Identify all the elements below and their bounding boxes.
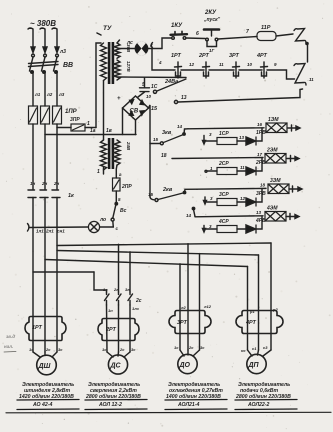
svg-text:3РТ: 3РТ: [177, 320, 188, 326]
svg-text:4ЭМ: 4ЭМ: [266, 206, 278, 212]
resistor 4SR with diode 4RV branch: [203, 217, 267, 233]
contact 3RT (thermal): [229, 53, 240, 78]
svg-text:2н: 2н: [41, 181, 48, 186]
svg-text:12: 12: [189, 62, 195, 67]
svg-text:14: 14: [177, 124, 183, 129]
svg-text:~ 380В: ~ 380В: [30, 19, 56, 28]
svg-text:ТУ: ТУ: [103, 25, 112, 32]
svg-text:2800 об/мин 220/380В: 2800 об/мин 220/380В: [235, 393, 291, 400]
svg-text:2л1: 2л1: [45, 229, 54, 234]
svg-text:1н: 1н: [30, 181, 36, 186]
svg-text:1Г: 1Г: [209, 48, 215, 53]
svg-text:1: 1: [87, 121, 90, 127]
svg-text:2800 об/мин 220/380В: 2800 об/мин 220/380В: [85, 393, 141, 400]
svg-text:15: 15: [153, 137, 159, 142]
fuse 3PR (control tap fuse): [57, 127, 71, 129]
resistor 1SR with diode 1RV branch: [203, 128, 267, 145]
connector Z2: [294, 64, 314, 86]
svg-text:л12: л12: [203, 304, 212, 309]
contact 1P (self-holding): [207, 41, 217, 47]
value label motor 1 description: [17, 382, 79, 410]
thermal relay 2RT heaters: [98, 319, 139, 341]
wire bus A: [57, 243, 271, 246]
connector Z1: [294, 29, 308, 45]
svg-text:13: 13: [239, 135, 245, 140]
secondary winding 24V: [114, 140, 120, 165]
svg-text:2РТ: 2РТ: [198, 53, 210, 59]
svg-text:АОЛ22-2: АОЛ22-2: [247, 402, 270, 408]
wire node 10: [239, 69, 262, 71]
wire phases below fuses: [33, 124, 57, 189]
wire branch 1: [188, 128, 264, 129]
svg-text:4РТ: 4РТ: [245, 320, 257, 326]
electromagnet 1EM: [266, 123, 287, 133]
svg-text:10: 10: [247, 62, 253, 67]
svg-text:л1: л1: [34, 92, 41, 97]
wire node 7: [218, 37, 257, 40]
svg-text:3кв: 3кв: [162, 130, 172, 136]
value label motor 2 description: [85, 382, 147, 410]
lamp LO (local light): [88, 217, 113, 233]
svg-text:+: +: [117, 96, 121, 102]
secondary winding 127V: [114, 60, 120, 80]
svg-text:ВВ: ВВ: [63, 62, 73, 69]
svg-text:127В: 127В: [126, 61, 131, 73]
svg-text:16: 16: [257, 122, 263, 127]
node terminal bracket left: [28, 224, 30, 232]
svg-text:3с: 3с: [200, 345, 205, 350]
rectifier bridge SV: [117, 96, 158, 120]
pushbutton 1KU (stop): [171, 23, 188, 39]
wire arrow output 3: [289, 186, 302, 192]
svg-text:4РТ: 4РТ: [256, 53, 268, 59]
motor DP (feed): [247, 350, 271, 374]
wire Z1 to Z2: [307, 45, 309, 62]
svg-text:1в: 1в: [103, 287, 108, 292]
switch 2KV: [148, 187, 197, 202]
svg-text:3с: 3с: [58, 347, 63, 352]
svg-text:сн1: сн1: [57, 229, 65, 234]
svg-text:6: 6: [196, 31, 199, 37]
electromagnet 4EM: [265, 212, 286, 222]
transformer TU: [97, 25, 131, 175]
svg-text:3в: 3в: [125, 287, 130, 292]
svg-text:3ПР: 3ПР: [70, 117, 80, 123]
contactor 1K contacts: [28, 190, 75, 199]
svg-text:2ПР: 2ПР: [121, 184, 132, 190]
primary winding straight section: [103, 81, 105, 141]
wire branch 3: [197, 187, 266, 190]
svg-text:СВ: СВ: [130, 109, 139, 115]
thermal relay 3RT heaters: [169, 311, 211, 334]
resistor 2SR with diode 2RV branch: [205, 158, 266, 175]
electromagnet 3EM: [268, 184, 289, 194]
svg-text:ДО: ДО: [179, 362, 191, 369]
svg-text:1РТ: 1РТ: [32, 325, 43, 331]
relay coil 11P: [257, 32, 276, 41]
svg-text:зв.д: зв.д: [6, 334, 15, 339]
svg-text:ДС: ДС: [110, 363, 122, 370]
svg-text:ло: ло: [99, 217, 106, 223]
svg-text:18: 18: [161, 153, 167, 159]
svg-text:л3: л3: [58, 92, 65, 97]
svg-text:Вс: Вс: [120, 208, 127, 214]
svg-text:1н: 1н: [108, 308, 113, 313]
wire bridge bottom corner down: [135, 120, 137, 135]
svg-text:1с: 1с: [29, 347, 34, 352]
thermal relay 1RT heaters: [25, 317, 66, 341]
svg-text:2кв: 2кв: [162, 187, 173, 193]
node second throw of 2KV: [192, 207, 194, 209]
svg-text:с1: с1: [252, 346, 257, 351]
svg-text:нс: нс: [241, 348, 246, 353]
switch BB (main 3-pole breaker): [29, 54, 74, 73]
svg-text:2РВ: 2РВ: [255, 160, 266, 166]
svg-text:1с: 1с: [174, 345, 179, 350]
svg-text:15: 15: [151, 106, 158, 112]
svg-text:АО 42-4: АО 42-4: [32, 402, 52, 408]
wire node 12: [181, 69, 204, 71]
svg-text:АОЛ21-4: АОЛ21-4: [177, 402, 200, 408]
svg-text:л2: л2: [46, 92, 53, 97]
svg-text:13: 13: [181, 95, 187, 101]
motor DS (drilling): [107, 352, 130, 374]
svg-text:л3: л3: [59, 49, 66, 55]
svg-text:18: 18: [260, 183, 266, 188]
wire phase L2 feed: [40, 28, 47, 53]
svg-text:нал.: нал.: [4, 344, 13, 349]
contactor 2S contacts: [103, 287, 142, 305]
wire lamp line to left: [30, 226, 88, 229]
wire arrow output 1: [288, 125, 300, 131]
svg-text:4СР: 4СР: [218, 219, 229, 225]
svg-text:4РВ: 4РВ: [255, 218, 266, 224]
node 24Va arrow: [157, 79, 186, 91]
svg-text:13: 13: [256, 210, 262, 215]
fuse 2PR (lamp circuit): [113, 165, 133, 202]
wire tap phase2 to rectifier line: [45, 134, 136, 136]
svg-text:1400 об/мин 220/380В: 1400 об/мин 220/380В: [166, 393, 221, 400]
svg-text:15: 15: [148, 192, 154, 197]
svg-text:1КУ: 1КУ: [171, 23, 183, 29]
svg-text:1: 1: [97, 169, 100, 175]
motor DSh (spindle): [33, 352, 57, 375]
wire bridge right corner to DC bus: [149, 105, 151, 197]
wire bridge left corner down: [122, 108, 124, 135]
wire phase L1 feed: [28, 28, 35, 53]
svg-text:ДП: ДП: [248, 362, 260, 369]
primary winding upper: [101, 43, 107, 81]
svg-text:2СР: 2СР: [218, 161, 229, 167]
wire phase L3 feed: [52, 28, 59, 53]
svg-text:5: 5: [142, 82, 145, 88]
electromagnet 2EM: [265, 154, 286, 164]
svg-text:АОЛ 12-2: АОЛ 12-2: [98, 402, 122, 408]
value label motor 3 description: [165, 382, 227, 410]
svg-text:2с: 2с: [135, 298, 142, 304]
resistor 3SR with diode 3RV branch: [204, 189, 267, 206]
svg-text:2н: 2н: [53, 181, 60, 186]
svg-text:2с: 2с: [188, 345, 194, 350]
pushbutton 2KU (start) "пуск": [203, 10, 221, 41]
svg-text:24В: 24В: [126, 141, 131, 151]
svg-text:1ЭМ: 1ЭМ: [268, 117, 279, 123]
wire coil to plug: [276, 34, 293, 36]
wire arrow output 2: [287, 156, 299, 162]
svg-text:11: 11: [219, 62, 224, 67]
wire branch 2 node 18: [172, 158, 263, 159]
svg-text:1лз: 1лз: [132, 306, 139, 311]
svg-text:4: 4: [158, 60, 162, 65]
wire bus D: [33, 271, 94, 273]
secondary winding 36V: [114, 43, 120, 58]
contact 1RT (thermal): [171, 53, 182, 78]
svg-text:3с: 3с: [131, 347, 136, 352]
svg-text:14: 14: [186, 213, 192, 218]
svg-text:с3: с3: [263, 345, 268, 350]
svg-text:„пуск”: „пуск”: [203, 17, 221, 23]
wire node 11: [209, 69, 234, 71]
svg-text:1С: 1С: [151, 84, 158, 90]
svg-text:1РТ: 1РТ: [171, 53, 182, 59]
wire drops motor 3: [180, 244, 200, 350]
svg-text:л2: л2: [180, 305, 186, 310]
switch VO (lamp switch): [111, 203, 127, 232]
svg-text:1РВ: 1РВ: [256, 130, 266, 136]
wire arrow output 4: [286, 214, 299, 220]
svg-text:1СР: 1СР: [219, 131, 229, 137]
svg-text:11Р: 11Р: [261, 25, 271, 31]
wire node 9 to Z2: [267, 70, 295, 79]
svg-text:лс: лс: [126, 40, 133, 46]
contact 2RT (thermal): [198, 53, 210, 78]
capacitor 1C: [138, 78, 158, 100]
value label motor 4 description: [235, 382, 297, 410]
svg-text:1с: 1с: [102, 347, 107, 352]
svg-text:11: 11: [309, 77, 314, 82]
svg-text:2в: 2в: [113, 287, 119, 292]
motor DO (coolant pump): [178, 350, 200, 374]
svg-text:2РТ: 2РТ: [105, 327, 117, 333]
wire bus B: [57, 251, 259, 256]
svg-text:2с: 2с: [45, 347, 51, 352]
svg-text:7: 7: [246, 29, 249, 35]
svg-text:2КУ: 2КУ: [204, 10, 217, 16]
svg-text:1а: 1а: [90, 128, 96, 134]
wire drops motor 4: [248, 243, 272, 350]
svg-text:ДШ: ДШ: [38, 363, 51, 370]
svg-text:3ЭМ: 3ЭМ: [270, 178, 281, 184]
wire 127V to 24Va tap: [117, 76, 186, 79]
svg-text:3РТ: 3РТ: [229, 53, 240, 59]
transformer core: [108, 42, 111, 84]
lamp LS (signal lamp): [117, 40, 153, 55]
svg-text:1ПР: 1ПР: [65, 109, 78, 115]
svg-text:24Ва: 24Ва: [164, 79, 178, 85]
svg-text:17: 17: [257, 152, 263, 157]
wire node 13 return line: [174, 100, 177, 103]
wire bus C: [45, 260, 248, 267]
wire bottom border line: [6, 411, 331, 414]
wire node 6: [186, 37, 205, 40]
svg-text:10: 10: [146, 94, 152, 99]
svg-text:3СР: 3СР: [219, 192, 229, 198]
svg-text:3РВ: 3РВ: [256, 191, 266, 197]
wire phases down to motor 1: [33, 198, 57, 353]
contact 4RT (thermal): [256, 53, 268, 78]
svg-text:1420 об/мин 220/380В: 1420 об/мин 220/380В: [19, 393, 74, 400]
svg-text:11: 11: [240, 165, 245, 170]
switch 3KV: [150, 124, 188, 145]
node terminal bracket: [151, 43, 152, 49]
svg-text:12: 12: [240, 196, 246, 201]
wire phases to fuses: [33, 73, 57, 106]
wire node 1 to transformer: [85, 127, 96, 129]
wire lamp to control line: [148, 38, 171, 49]
svg-text:2ЭМ: 2ЭМ: [266, 148, 278, 154]
svg-text:1в: 1в: [106, 128, 112, 134]
wire drops motor 2: [94, 244, 130, 292]
svg-text:2с: 2с: [119, 347, 125, 352]
wire control common down to RT row: [152, 49, 175, 71]
wire branch 4: [195, 216, 263, 217]
thermal relay 4RT heaters: [236, 311, 283, 334]
primary winding lower: [101, 140, 107, 170]
fuse 1PR (three-phase fuses): [29, 106, 62, 124]
svg-text:1л1: 1л1: [36, 229, 44, 234]
wire transformer primary left lead: [96, 43, 101, 128]
